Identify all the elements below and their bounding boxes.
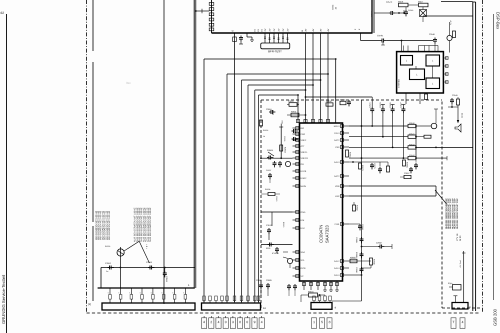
svg-text:5: 5 [172, 291, 173, 294]
svg-text:C2548: C2548 [429, 33, 435, 36]
svg-text:C2552: C2552 [105, 262, 112, 265]
svg-text:5: 5 [140, 291, 141, 294]
svg-text:R2673: R2673 [361, 165, 364, 171]
svg-text:GND: GND [300, 211, 305, 214]
svg-text:5: 5 [151, 291, 152, 294]
svg-text:VREFL: VREFL [300, 151, 308, 154]
svg-text:NUR BEI GERATEN MIT DSP: NUR BEI GERATEN MIT DSP [456, 198, 459, 229]
svg-text:SAA7323: SAA7323 [325, 225, 330, 243]
svg-text:SDA: SDA [300, 251, 305, 254]
svg-text:C25-81: C25-81 [377, 34, 383, 37]
svg-text:T: T [452, 320, 454, 324]
svg-text:VREFR: VREFR [300, 157, 308, 160]
svg-text:R2642: R2642 [409, 143, 415, 146]
svg-text:ATT: ATT [300, 145, 305, 148]
svg-text:MAIN: MAIN [300, 185, 306, 188]
svg-text:STEREO: STEREO [397, 79, 400, 88]
svg-text:C2610: C2610 [275, 196, 278, 201]
svg-text:GB: GB [300, 163, 304, 166]
svg-text:3Qm: 3Qm [448, 282, 453, 285]
svg-text:C2566: C2566 [165, 276, 168, 283]
svg-text:1u: 1u [106, 270, 108, 273]
svg-text:[1]: [1] [88, 303, 91, 306]
svg-text:0: 0 [225, 320, 227, 324]
svg-text:C2608: C2608 [256, 279, 262, 282]
svg-text:4: 4 [462, 320, 464, 324]
svg-text:NUR BEI GERATEN MIT 100HZ: NUR BEI GERATEN MIT 100HZ [149, 207, 152, 242]
svg-text:4: 4 [203, 320, 205, 324]
svg-text:C2545: C2545 [452, 94, 458, 97]
svg-text:C2543: C2543 [408, 9, 413, 12]
svg-text:R2613: R2613 [282, 222, 285, 227]
svg-text:C2563: C2563 [146, 261, 153, 264]
svg-text:C2609: C2609 [266, 279, 272, 282]
svg-text:+ 4 +: + 4 + [145, 244, 148, 250]
svg-text:R2606: R2606 [267, 149, 274, 152]
svg-text:DAR2: DAR2 [300, 177, 307, 180]
svg-text:R2689: R2689 [355, 252, 358, 258]
svg-text:VRB: VRB [335, 185, 340, 188]
svg-text:R2682: R2682 [356, 205, 359, 211]
svg-text:C2657: C2657 [404, 172, 410, 175]
svg-text:R2616: R2616 [326, 100, 332, 103]
svg-text:R2640: R2640 [409, 122, 415, 125]
svg-text:R2618: R2618 [340, 99, 345, 102]
svg-text:C2603: C2603 [283, 136, 286, 141]
svg-text:R2604: R2604 [284, 147, 287, 154]
svg-text:DATB: DATB [300, 170, 306, 173]
svg-text:PAL3: PAL3 [334, 132, 340, 135]
svg-text:R2641: R2641 [409, 133, 415, 136]
svg-text:C2696: C2696 [355, 267, 358, 273]
svg-text:4: 4 [218, 320, 220, 324]
svg-text:DCG: DCG [332, 4, 335, 9]
svg-text:3xx: 3xx [126, 81, 131, 85]
svg-text:IS 20: IS 20 [459, 235, 462, 241]
svg-text:DAL2: DAL2 [334, 260, 340, 263]
svg-text:C2582: C2582 [376, 242, 382, 245]
svg-text:5: 5 [183, 291, 184, 294]
svg-text:3: 3 [232, 320, 234, 324]
svg-text:C2621: C2621 [368, 102, 371, 108]
svg-text:1: 1 [313, 320, 315, 324]
svg-text:8: 8 [239, 320, 241, 324]
svg-text:62: 62 [0, 11, 4, 15]
svg-text:2: 2 [210, 320, 212, 324]
svg-text:BFR-TEST: BFR-TEST [268, 49, 282, 53]
svg-text:C2641: C2641 [288, 100, 294, 103]
svg-text:5: 5 [129, 291, 130, 294]
svg-text:DAL3: DAL3 [334, 161, 340, 164]
svg-text:C2627: C2627 [400, 102, 403, 108]
svg-text:0: 0 [246, 320, 248, 324]
svg-text:CM2: CM2 [300, 133, 305, 136]
svg-text:VREF: VREF [300, 139, 306, 142]
svg-text:DAL4: DAL4 [334, 267, 340, 270]
svg-text:C2607: C2607 [266, 169, 271, 172]
svg-text:R2651: R2651 [349, 152, 352, 158]
svg-text:8: 8 [329, 320, 331, 324]
svg-text:INTB: INTB [300, 267, 306, 270]
svg-text:R5641: R5641 [308, 290, 314, 293]
svg-text:C2684: C2684 [361, 224, 364, 230]
svg-text:DC10: DC10 [461, 113, 464, 118]
svg-text:DAT2: DAT2 [334, 139, 340, 142]
svg-text:C2625: C2625 [389, 102, 392, 108]
svg-text:1TV 16: 1TV 16 [456, 233, 459, 241]
svg-text:MAL3: MAL3 [334, 125, 340, 128]
svg-text:CC0947N: CC0947N [319, 225, 324, 243]
svg-text:1k: 1k [263, 135, 265, 138]
svg-text:C2689: C2689 [355, 237, 358, 243]
svg-text:R2608: R2608 [265, 188, 270, 191]
svg-text:R2643: R2643 [409, 154, 415, 157]
svg-text:ILM: ILM [300, 219, 304, 222]
svg-text:TUN A: TUN A [370, 11, 373, 18]
svg-text:BEI GERATEN MIT 100 HZ: BEI GERATEN MIT 100 HZ [108, 210, 111, 240]
svg-text:GRUNDIG Service-Textteil: GRUNDIG Service-Textteil [1, 275, 6, 324]
svg-text:+3V 3mA: +3V 3mA [459, 259, 462, 268]
svg-text:C2675: C2675 [373, 163, 376, 169]
svg-text:DAT2: DAT2 [334, 175, 340, 178]
svg-text:R2655: R2655 [406, 162, 409, 168]
svg-text:4: 4 [261, 320, 263, 324]
svg-text:R2690: R2690 [373, 259, 376, 265]
svg-text:ICL/FBI: ICL/FBI [272, 252, 279, 255]
svg-text:GSB 200: GSB 200 [493, 308, 498, 326]
svg-text:GAL3: GAL3 [334, 274, 340, 277]
svg-text:R2602: R2602 [263, 129, 268, 132]
svg-text:C2604: C2604 [266, 108, 272, 111]
svg-text:9: 9 [254, 320, 256, 324]
svg-text:CIN1: CIN1 [335, 223, 341, 226]
svg-text:R2692: R2692 [350, 256, 356, 259]
svg-text:VSS: VSS [335, 146, 340, 149]
svg-text:LIN2: LIN2 [335, 195, 340, 198]
svg-text:5: 5 [321, 320, 323, 324]
svg-text:C2623: C2623 [379, 102, 382, 108]
svg-text:R2611: R2611 [291, 110, 296, 113]
svg-text:5: 5 [108, 291, 109, 294]
svg-text:DSP-Box: DSP-Box [496, 12, 500, 30]
svg-text:R2553: R2553 [105, 245, 110, 248]
svg-text:5: 5 [118, 291, 119, 294]
svg-text:C25-73: C25-73 [386, 1, 392, 4]
svg-text:5: 5 [161, 291, 162, 294]
